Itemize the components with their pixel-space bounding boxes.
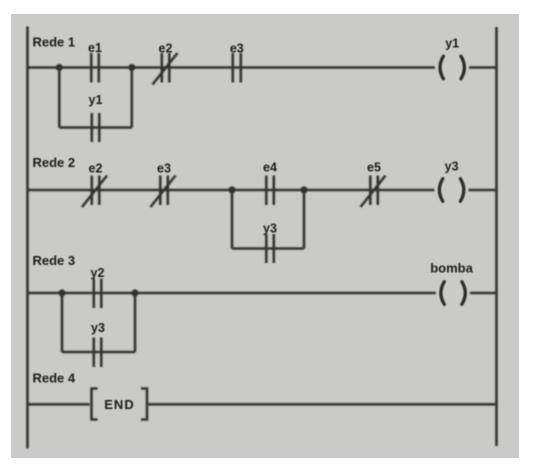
wire rung 2 [28, 189, 435, 192]
contact e3 [233, 53, 241, 83]
svg-text:Rede 4: Rede 4 [33, 371, 76, 386]
contact e2 rung2 (NC) [82, 176, 107, 208]
node D (junction dot right, rung 2) [300, 186, 307, 193]
svg-text:e3: e3 [157, 162, 171, 176]
node B (junction dot right, rung 1) [128, 64, 135, 71]
contact e4 [266, 176, 274, 206]
node A (junction dot left, rung 1) [56, 64, 63, 71]
END block brackets [92, 389, 148, 420]
wire rung 1 [28, 66, 436, 69]
coil y1 (output, rung 1) [440, 56, 464, 79]
node C (junction dot left, rung 2) [228, 186, 235, 193]
svg-text:e4: e4 [263, 161, 277, 175]
svg-text:y3: y3 [91, 321, 105, 335]
svg-text:e1: e1 [88, 41, 102, 55]
node E (junction dot left, rung 3) [58, 289, 65, 296]
svg-text:y3: y3 [445, 160, 459, 174]
contact y1 (parallel branch) [92, 113, 100, 142]
wire rung 3 [28, 292, 436, 295]
node F (junction dot right, rung 3) [131, 289, 138, 296]
svg-text:END: END [104, 397, 134, 412]
wire branch rung 1 [59, 68, 132, 128]
svg-text:y2: y2 [91, 266, 105, 280]
contact e1 [91, 53, 99, 83]
contact e3 rung2 (NC) [151, 176, 176, 208]
contact e2 (NC) [153, 53, 178, 85]
svg-text:Rede 1: Rede 1 [33, 35, 76, 50]
svg-text:Rede 3: Rede 3 [33, 253, 76, 268]
coil bomba (output, rung 3) [441, 282, 465, 305]
coil y3 (output, rung 2) [439, 179, 463, 202]
wire branch rung 2 [232, 190, 304, 249]
svg-text:Rede 2: Rede 2 [33, 155, 76, 170]
contact y3 (parallel branch rung 3) [94, 338, 102, 368]
contact e5 (NC) [361, 176, 386, 208]
svg-text:y3: y3 [263, 222, 277, 236]
contact y2 [94, 279, 102, 309]
right power rail [495, 27, 498, 446]
svg-text:y1: y1 [89, 93, 103, 107]
wire rung 4 [28, 403, 90, 406]
svg-text:e2: e2 [159, 42, 173, 56]
svg-text:y1: y1 [445, 37, 459, 51]
svg-text:e2: e2 [89, 162, 103, 176]
left power rail [26, 27, 29, 449]
svg-text:bomba: bomba [430, 261, 473, 276]
contact y3 (parallel branch rung 2) [266, 234, 274, 263]
svg-text:e5: e5 [367, 161, 381, 175]
wire branch rung 3 [62, 293, 135, 352]
svg-text:e3: e3 [230, 42, 244, 56]
